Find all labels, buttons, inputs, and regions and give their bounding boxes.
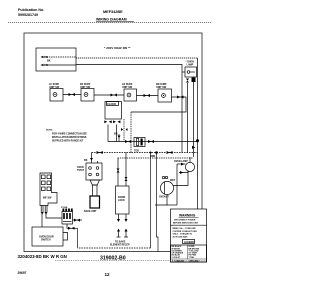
power supply terminal box J1 — [36, 48, 76, 71]
svg-text:BAKE UNIT: BAKE UNIT — [84, 210, 97, 213]
junction dot x197.5 y140.5 — [196, 139, 199, 142]
vertical wire from down-arrow into H4 — [118, 134, 120, 142]
svg-text:LOCK: LOCK — [118, 199, 125, 202]
svg-text:INF SW: INF SW — [43, 197, 52, 200]
right column wire x193.5 lamp right pin — [193, 82, 195, 157]
wire motor bottom web — [155, 195, 167, 205]
svg-text:TSTAT: TSTAT — [77, 169, 85, 172]
wire H1 L1 bus — [76, 57, 198, 59]
clock wire 3 with connector — [123, 119, 125, 142]
svg-text:WIRE COL - CODE USE: WIRE COL - CODE USE — [173, 228, 197, 230]
wire from H5 down into oven thermostat — [91, 153, 93, 164]
wire vertical from H3 to H5 — [130, 112, 132, 153]
svg-text:ELEMENT RECEP: ELEMENT RECEP — [110, 245, 130, 247]
TOD component body — [134, 138, 145, 153]
clock timer box — [105, 102, 122, 120]
svg-text:CLOCK: CLOCK — [107, 102, 116, 106]
connector below plug block — [66, 224, 68, 229]
wire motor right to lamp bottom — [174, 171, 189, 186]
header rule — [96, 21, 134, 23]
svg-text:BK: BK — [84, 159, 88, 162]
connector right of plug block — [73, 219, 83, 221]
svg-text:SUPPLIED WITH RANGE KIT: SUPPLIED WITH RANGE KIT — [52, 140, 84, 143]
main diagram frame — [24, 33, 202, 252]
clock wire 2 — [116, 125, 118, 142]
wire S4 output loop to H3 — [131, 97, 186, 112]
svg-text:WIRING DIAGRAM: WIRING DIAGRAM — [96, 18, 127, 22]
clock wire 1 — [107, 125, 109, 142]
svg-text:FOR 4-WIRE CONNECTION SEE: FOR 4-WIRE CONNECTION SEE — [52, 133, 87, 136]
right column wire x187.5 lamp left pin — [187, 83, 189, 153]
infinite switch pins — [41, 206, 47, 213]
footer dotted rule — [55, 259, 206, 261]
svg-text:20 IN LBS MAX: 20 IN LBS MAX — [173, 235, 189, 238]
wire down from connector to bottom bus — [77, 228, 79, 248]
svg-text:TOD: TOD — [134, 150, 139, 153]
svg-text:COPPER CONDUCTORS: COPPER CONDUCTORS — [173, 231, 198, 233]
surface unit switch S1 — [49, 83, 63, 101]
svg-text:LEGEND: LEGEND — [184, 241, 194, 244]
svg-text:NOTE:: NOTE: — [46, 130, 53, 132]
vertical wire x150 down then left along bottom — [150, 153, 152, 249]
svg-text:3204023-8D BK W R GN: 3204023-8D BK W R GN — [18, 254, 67, 259]
wire S3-S4 with connector — [137, 95, 159, 97]
wire S1-S2 with connector — [63, 94, 81, 96]
svg-text:UNIT SW: UNIT SW — [122, 86, 133, 89]
oven thermostat box — [77, 161, 102, 180]
wire H5 oven circuit bus — [92, 152, 198, 154]
legend warning box — [171, 209, 207, 262]
connector on H5 right — [167, 151, 173, 154]
right column wire x197.5 down to legend — [197, 140, 199, 209]
surface unit switch S3 — [122, 83, 137, 101]
svg-text:29697: 29697 — [18, 271, 27, 275]
stub into lamp box — [182, 71, 185, 73]
surface unit switch S2 — [80, 83, 94, 101]
svg-text:ONLY - TORQUE TO: ONLY - TORQUE TO — [173, 234, 193, 236]
header publication number text — [18, 8, 44, 17]
convection motor circle — [159, 176, 176, 198]
connector left of lamp — [177, 163, 186, 165]
svg-text:T TAN: T TAN — [189, 256, 195, 259]
svg-text:MOT: MOT — [170, 180, 176, 182]
wire lamp bottom to motor — [179, 171, 188, 173]
vertical wire x177 — [176, 164, 178, 205]
svg-text:LAMP: LAMP — [187, 64, 194, 67]
note text block — [46, 130, 87, 143]
svg-text:MEF342BE: MEF342BE — [103, 10, 123, 14]
svg-text:5995281749: 5995281749 — [18, 13, 38, 17]
J1 wire label RD (L1) — [41, 55, 51, 67]
wire S2-S3 with connector — [94, 94, 124, 96]
svg-text:OVEN: OVEN — [77, 167, 84, 169]
wire L2 inside J1 — [47, 64, 77, 66]
vertical wire x156 down to frame bottom — [157, 153, 159, 252]
svg-text:SWITCH: SWITCH — [41, 239, 51, 242]
surface unit switch S4 — [156, 83, 172, 102]
bottom part number strip — [18, 254, 67, 259]
junction dot H4 right end — [196, 140, 199, 143]
svg-text:WARNING: WARNING — [179, 214, 196, 218]
connector below lamp box — [186, 79, 189, 83]
svg-text:UNIT SW: UNIT SW — [156, 86, 167, 89]
junction dot on H5 — [155, 151, 158, 154]
connector on H5 — [97, 151, 103, 154]
svg-text:Publication No.: Publication No. — [18, 8, 44, 12]
clock output connectors — [104, 120, 111, 123]
svg-text:V VIOLET: V VIOLET — [172, 257, 181, 259]
wire from inf switch to lower box — [41, 212, 43, 227]
wire H2 L2 bus — [76, 65, 182, 153]
connector on H4 right — [148, 140, 154, 143]
svg-text:OVEN LAMP: OVEN LAMP — [174, 160, 188, 163]
oven door switch box (bottom left) — [32, 227, 68, 246]
interconnect plug block — [61, 207, 73, 224]
oven relay / TOD on H4 — [108, 141, 198, 143]
wire L1 inside J1 — [47, 56, 77, 58]
svg-text:GROUND: GROUND — [189, 261, 199, 263]
connector arrow on x193.5 at y147 — [192, 146, 195, 149]
door lock motor box wires from H5/H6 — [117, 158, 119, 186]
oven lamp assembly box E1 (top right) — [185, 61, 197, 78]
svg-text:OVEN LT: OVEN LT — [159, 197, 169, 199]
wire H6 — [118, 157, 194, 159]
svg-text:INSTALLATION INSTRUCTIONS: INSTALLATION INSTRUCTIONS — [52, 136, 87, 139]
infinite switch block (left) — [40, 173, 57, 206]
svg-text:12: 12 — [105, 272, 111, 277]
svg-text:TO BAKE: TO BAKE — [115, 241, 126, 244]
oven lamp circle — [174, 157, 195, 172]
legend table — [171, 245, 207, 263]
door lock motor box — [116, 186, 130, 214]
svg-text:BEFORE SERVICING UNIT: BEFORE SERVICING UNIT — [173, 222, 199, 224]
bake element assembly — [84, 180, 100, 213]
svg-text:DISCONNECT POWER: DISCONNECT POWER — [174, 220, 196, 222]
connector on H4 left — [125, 140, 131, 143]
svg-text:* 240V 60HZ 3W **: * 240V 60HZ 3W ** — [104, 46, 131, 50]
door lock lower connectors — [118, 214, 120, 219]
svg-text:BR: BR — [114, 133, 118, 136]
